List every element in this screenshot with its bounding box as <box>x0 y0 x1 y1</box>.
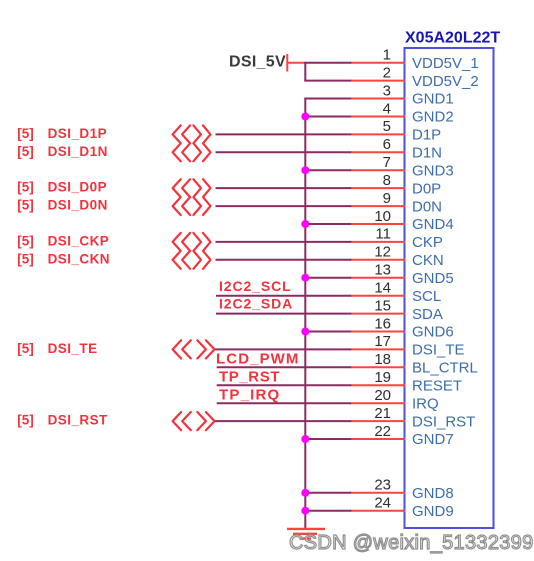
wire GND bus to pin 3 <box>304 98 351 100</box>
connector U1 X05A20L22T body <box>405 48 494 528</box>
pin 16 stub <box>350 331 405 333</box>
wire to pin 6 D1N <box>216 151 352 153</box>
wire to pin 15 SDA <box>216 313 351 315</box>
wire GND bus to pin 10 <box>305 223 351 225</box>
wire GND bus to pin 4 <box>305 116 351 118</box>
svg-text:D0N: D0N <box>412 198 442 215</box>
pin 13 stub <box>350 277 405 279</box>
svg-text:I2C2_SDA: I2C2_SDA <box>219 296 293 312</box>
wire DSI_5V to pin 1 <box>304 62 351 64</box>
pin 15 stub <box>350 313 405 315</box>
svg-text:D1N: D1N <box>412 145 442 162</box>
svg-text:TP_RST: TP_RST <box>219 368 280 385</box>
svg-text:VDD5V_1: VDD5V_1 <box>412 55 479 72</box>
net label [5] DSI_CKN <box>17 251 110 266</box>
svg-text:15: 15 <box>374 297 391 314</box>
wire to pin 14 SCL <box>216 295 351 297</box>
net label [5] DSI_TE <box>17 341 97 356</box>
svg-text:DSI_TE: DSI_TE <box>48 341 98 356</box>
pin 14 stub <box>350 295 405 297</box>
svg-text:1: 1 <box>383 47 391 64</box>
svg-text:8: 8 <box>383 172 391 189</box>
pin 12 stub <box>350 259 405 261</box>
pin 1 stub <box>350 62 405 64</box>
pin 6 stub <box>350 151 405 153</box>
svg-text:TP_IRQ: TP_IRQ <box>219 386 280 403</box>
pin 5 stub <box>350 133 405 135</box>
wire to pin 8 D0P <box>216 187 352 189</box>
pin 9 stub <box>350 205 405 207</box>
svg-text:DSI_D1N: DSI_D1N <box>48 144 108 159</box>
wire DSI_5V tick to junction <box>287 62 306 64</box>
svg-text:CSDN @weixin_51332399: CSDN @weixin_51332399 <box>289 532 534 554</box>
svg-text:17: 17 <box>374 333 391 350</box>
wire GND bus to pin 13 <box>305 277 351 279</box>
svg-text:14: 14 <box>374 280 391 297</box>
svg-text:5: 5 <box>383 118 391 135</box>
pin 3 stub <box>350 98 405 100</box>
pin 2 stub <box>350 80 405 82</box>
wire to pin 21 DSI_RST <box>215 420 352 422</box>
svg-text:24: 24 <box>374 495 391 512</box>
net label [5] DSI_D1N <box>17 144 107 159</box>
wire GND bus to pin 16 <box>305 331 351 333</box>
svg-text:10: 10 <box>374 208 391 225</box>
junction at pin 24 <box>301 507 309 515</box>
off-sheet connector DSI_RST <box>173 412 215 430</box>
wire GND vertical bus <box>304 99 306 529</box>
net label [5] DSI_D0N <box>17 198 107 213</box>
svg-text:IRQ: IRQ <box>412 395 439 412</box>
pin 24 stub <box>350 510 405 512</box>
svg-text:GND4: GND4 <box>412 216 454 233</box>
junction at pin 10 <box>301 220 309 228</box>
svg-text:CKN: CKN <box>412 252 444 269</box>
svg-text:[5]: [5] <box>17 180 34 195</box>
wire to pin 18 BL_CTRL <box>217 366 352 368</box>
wire to pin 19 RESET <box>217 384 352 386</box>
pin 11 stub <box>350 241 405 243</box>
wire GND bus to pin 22 <box>305 438 351 440</box>
ground symbol <box>287 529 325 539</box>
wire to pin 17 DSI_TE <box>215 348 352 350</box>
pin 22 stub <box>350 438 405 440</box>
svg-text:CKP: CKP <box>412 234 443 251</box>
svg-text:23: 23 <box>374 477 391 494</box>
svg-text:18: 18 <box>374 351 391 368</box>
junction at pin 13 <box>301 274 309 282</box>
svg-text:[5]: [5] <box>17 413 34 428</box>
svg-text:GND1: GND1 <box>412 91 454 108</box>
svg-text:[5]: [5] <box>17 251 34 266</box>
svg-text:4: 4 <box>383 100 391 117</box>
svg-text:GND9: GND9 <box>412 503 454 520</box>
wire DSI_5V vertical to pin 2 <box>304 63 306 81</box>
wire to pin 12 CKN <box>216 259 352 261</box>
svg-text:7: 7 <box>383 154 391 171</box>
svg-text:SDA: SDA <box>412 306 443 323</box>
svg-text:DSI_5V: DSI_5V <box>229 54 286 71</box>
svg-text:3: 3 <box>383 82 391 99</box>
svg-text:GND2: GND2 <box>412 109 454 126</box>
svg-text:DSI_CKN: DSI_CKN <box>48 251 110 266</box>
wire to pin 20 IRQ <box>217 402 352 404</box>
svg-text:DSI_D0P: DSI_D0P <box>48 180 107 195</box>
svg-text:2: 2 <box>383 64 391 81</box>
svg-text:GND3: GND3 <box>412 162 454 179</box>
svg-text:12: 12 <box>374 244 391 261</box>
svg-text:X05A20L22T: X05A20L22T <box>405 30 500 47</box>
svg-text:6: 6 <box>383 136 391 153</box>
svg-text:13: 13 <box>374 262 391 279</box>
pin 19 stub <box>350 384 405 386</box>
svg-text:20: 20 <box>374 387 391 404</box>
wire DSI_5V to pin 2 <box>304 80 351 82</box>
svg-text:BL_CTRL: BL_CTRL <box>412 360 478 377</box>
svg-text:DSI_RST: DSI_RST <box>412 413 475 430</box>
off-sheet connector DSI_TE <box>173 340 215 358</box>
svg-text:DSI_D1P: DSI_D1P <box>48 126 107 141</box>
pin 8 stub <box>350 187 405 189</box>
svg-text:SCL: SCL <box>412 288 441 305</box>
svg-text:[5]: [5] <box>17 144 34 159</box>
svg-text:DSI_TE: DSI_TE <box>412 342 465 359</box>
svg-text:11: 11 <box>375 226 391 243</box>
pin 20 stub <box>350 402 405 404</box>
net label [5] DSI_CKP <box>17 234 109 249</box>
svg-text:GND8: GND8 <box>412 485 454 502</box>
pin 21 stub <box>350 420 405 422</box>
DSI_5V port tick <box>286 54 288 72</box>
net label [5] DSI_D0P <box>17 180 107 195</box>
pin 18 stub <box>350 366 405 368</box>
off-sheet connector DSI_D0 (differential pair) <box>173 179 211 215</box>
svg-text:[5]: [5] <box>17 234 34 249</box>
svg-text:DSI_CKP: DSI_CKP <box>48 234 110 249</box>
net label [5] DSI_D1P <box>17 126 107 141</box>
svg-text:DSI_RST: DSI_RST <box>48 413 108 428</box>
junction at pin 16 <box>301 328 309 336</box>
svg-text:DSI_D0N: DSI_D0N <box>48 198 108 213</box>
svg-text:I2C2_SCL: I2C2_SCL <box>219 278 292 294</box>
svg-text:D0P: D0P <box>412 180 441 197</box>
svg-text:16: 16 <box>374 315 391 332</box>
pin 17 stub <box>350 348 405 350</box>
svg-text:9: 9 <box>383 190 391 207</box>
wire to pin 9 D0N <box>216 205 352 207</box>
svg-text:19: 19 <box>374 369 391 386</box>
svg-text:22: 22 <box>374 423 391 440</box>
svg-text:GND5: GND5 <box>412 270 454 287</box>
svg-text:[5]: [5] <box>17 126 34 141</box>
svg-text:GND7: GND7 <box>412 431 454 448</box>
off-sheet connector DSI_CK (differential pair) <box>173 233 211 269</box>
net label [5] DSI_RST <box>17 413 108 428</box>
wire GND bus to pin 24 <box>305 510 351 512</box>
junction at pin 22 <box>301 435 309 443</box>
svg-text:[5]: [5] <box>17 341 34 356</box>
svg-text:RESET: RESET <box>412 378 462 395</box>
off-sheet connector DSI_D1 (differential pair) <box>173 125 211 161</box>
svg-text:[5]: [5] <box>17 198 34 213</box>
pin 7 stub <box>350 169 405 171</box>
junction at pin 4 <box>301 113 309 121</box>
pin 4 stub <box>350 116 405 118</box>
junction at pin 7 <box>301 166 309 174</box>
svg-text:GND6: GND6 <box>412 324 454 341</box>
wire GND bus to pin 23 <box>305 492 351 494</box>
pin 10 stub <box>350 223 405 225</box>
wire GND bus to pin 7 <box>305 169 351 171</box>
junction at pin 23 <box>301 489 309 497</box>
svg-text:VDD5V_2: VDD5V_2 <box>412 73 479 90</box>
svg-text:LCD_PWM: LCD_PWM <box>216 350 300 367</box>
wire to pin 5 D1P <box>216 133 352 135</box>
svg-text:D1P: D1P <box>412 127 441 144</box>
svg-text:21: 21 <box>374 405 391 422</box>
wire to pin 11 CKP <box>216 241 352 243</box>
pin 23 stub <box>350 492 405 494</box>
